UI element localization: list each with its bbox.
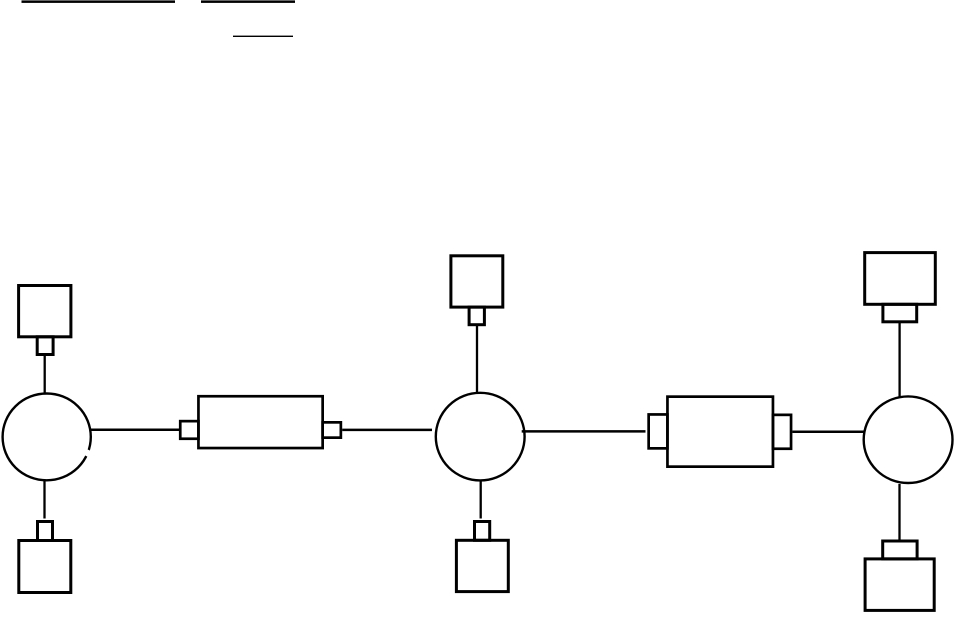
wire link L1 to router R2 — [342, 429, 432, 432]
host H6 square (bottom-right) — [865, 559, 934, 611]
host H2 connector neck — [38, 522, 53, 541]
wire H5 to router R3 — [898, 323, 900, 397]
host H5 square (top-right) — [865, 253, 936, 305]
wire link L2 to router R3 — [792, 431, 864, 434]
router R1 circle — [3, 394, 91, 481]
heading underline 2 — [201, 0, 295, 3]
wire H1 to router R1 — [44, 356, 46, 394]
host H4 connector neck — [475, 522, 490, 541]
gap in router R1 circle outline — [87, 450, 90, 456]
link L2 body rectangle — [667, 397, 773, 467]
host H1 square (top-left) — [19, 286, 71, 337]
link L2 right port — [773, 415, 791, 449]
host H3 square (top-middle) — [451, 256, 503, 307]
heading underline 3 — [233, 36, 293, 37]
link L1 left port — [180, 421, 198, 439]
host H6 connector neck — [883, 541, 917, 559]
wire router R2 to link L2 — [522, 430, 646, 433]
link L2 left port — [649, 414, 668, 448]
link L1 body rectangle — [198, 396, 322, 448]
host H1 connector neck — [37, 337, 53, 355]
router R3 circle — [864, 396, 953, 483]
heading underline 1 — [22, 0, 176, 3]
wire router R1 to host H2 — [43, 481, 45, 519]
wire H3 to router R2 — [476, 326, 478, 393]
host H2 square (bottom-left) — [19, 541, 71, 593]
link L1 right port — [323, 422, 341, 437]
router R2 circle — [436, 393, 525, 481]
host H3 connector neck — [469, 307, 484, 325]
host H4 square (bottom-middle) — [456, 540, 508, 591]
wire router R3 to host H6 — [898, 484, 900, 540]
wire router R1 to link L1 — [90, 429, 180, 432]
host H5 connector neck — [883, 304, 917, 322]
wire router R2 to host H4 — [480, 481, 482, 519]
